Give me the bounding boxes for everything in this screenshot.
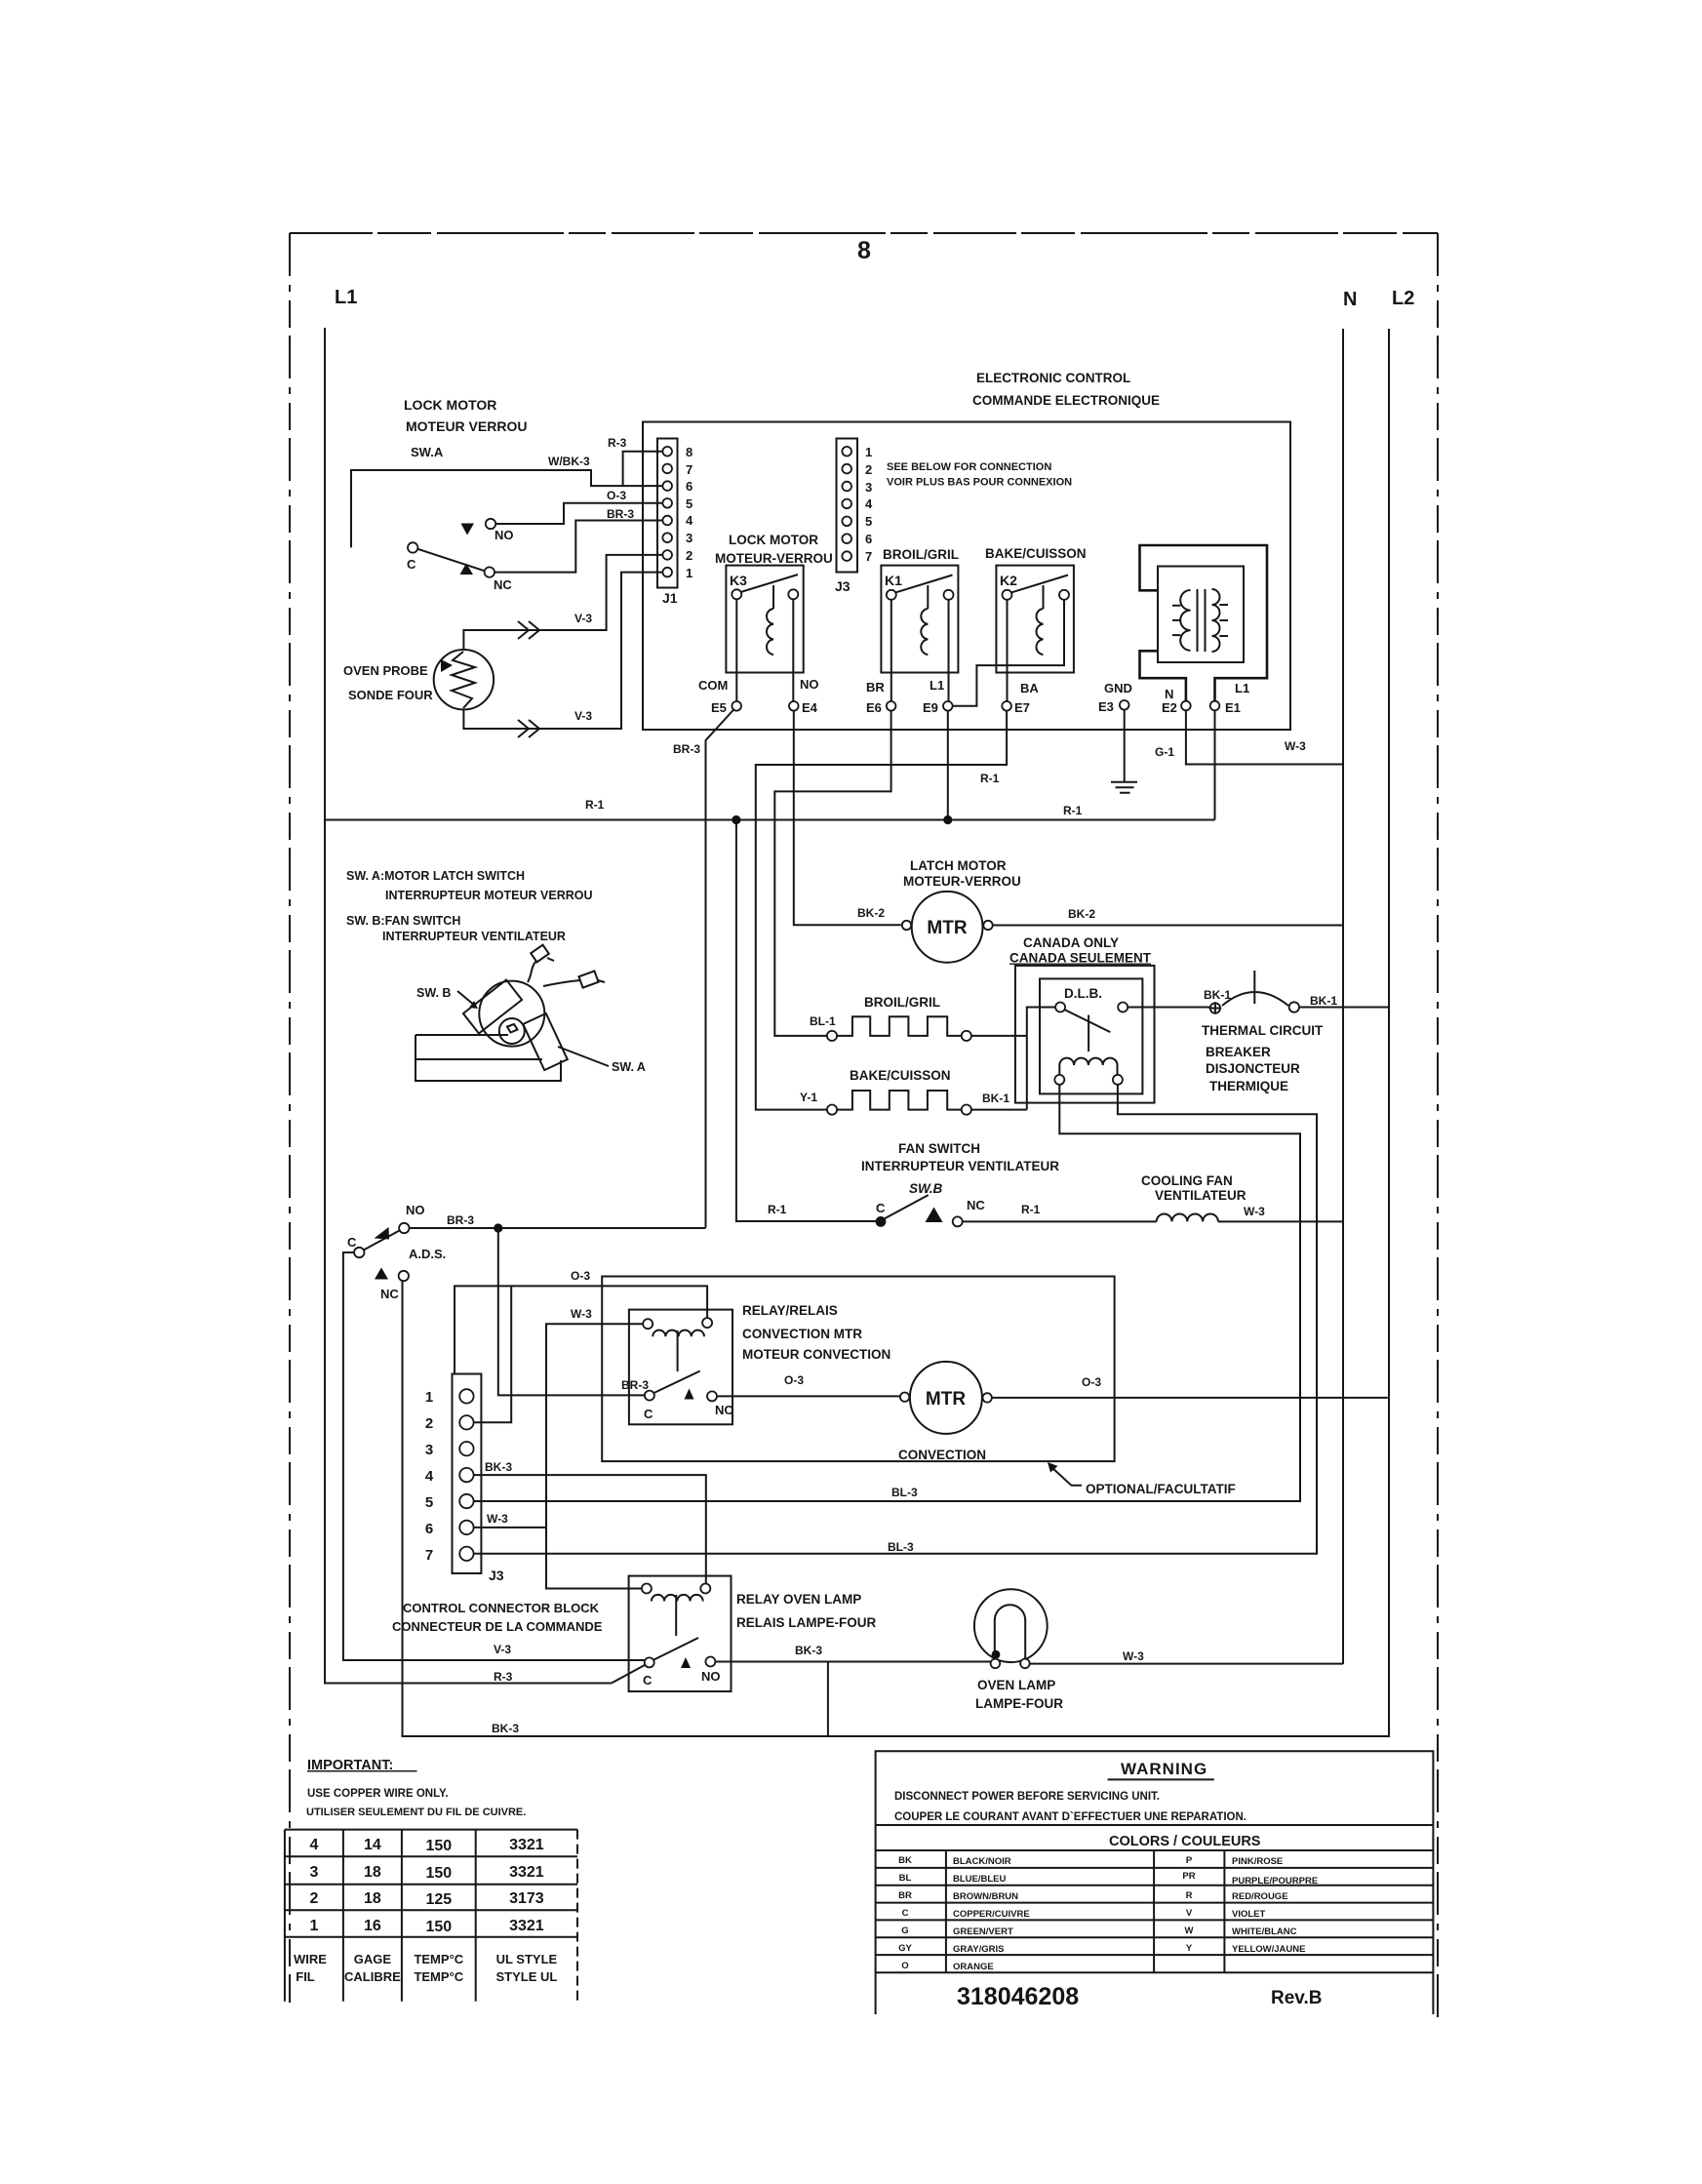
svg-text:318046208: 318046208 xyxy=(957,1983,1079,2010)
junction dot R-1/fan xyxy=(732,815,740,824)
wire L1 bus + R-3 run to relay arm xyxy=(325,328,612,1684)
svg-text:W-3: W-3 xyxy=(487,1512,508,1526)
electronic control box xyxy=(643,422,1290,731)
svg-text:BK-1: BK-1 xyxy=(1204,988,1231,1002)
svg-text:COM: COM xyxy=(698,678,728,693)
svg-text:D.L.B.: D.L.B. xyxy=(1064,986,1102,1001)
terminal E4 xyxy=(789,701,799,711)
svg-text:GND: GND xyxy=(1104,681,1132,695)
wire BK-3 J3 pin4 to lamp relay coil xyxy=(474,1475,706,1583)
svg-text:VOIR PLUS BAS POUR CONNEXION: VOIR PLUS BAS POUR CONNEXION xyxy=(887,477,1072,489)
svg-text:6: 6 xyxy=(686,479,693,494)
svg-text:LATCH MOTOR: LATCH MOTOR xyxy=(910,858,1007,873)
svg-text:W: W xyxy=(1185,1926,1194,1936)
svg-text:INTERRUPTEUR VENTILATEUR: INTERRUPTEUR VENTILATEUR xyxy=(382,930,566,943)
svg-text:BK-1: BK-1 xyxy=(1310,994,1337,1008)
switch SW.A NO arrow xyxy=(461,524,475,536)
svg-text:GAGE: GAGE xyxy=(354,1952,392,1966)
wire NC to cooling fan xyxy=(963,1220,1157,1222)
thermal circuit breaker xyxy=(1209,971,1299,1014)
svg-text:SEE BELOW FOR CONNECTION: SEE BELOW FOR CONNECTION xyxy=(887,461,1051,473)
svg-text:YELLOW/JAUNE: YELLOW/JAUNE xyxy=(1232,1944,1305,1955)
svg-text:BLACK/NOIR: BLACK/NOIR xyxy=(953,1856,1011,1867)
svg-text:W-3: W-3 xyxy=(1244,1205,1265,1218)
svg-text:UL STYLE: UL STYLE xyxy=(496,1952,558,1966)
svg-text:E3: E3 xyxy=(1098,699,1114,714)
latch assembly pictorial xyxy=(416,945,605,1081)
warning divider xyxy=(876,1824,1434,1826)
svg-text:E1: E1 xyxy=(1225,700,1241,715)
svg-text:K2: K2 xyxy=(1000,573,1017,588)
svg-text:G-1: G-1 xyxy=(1155,745,1174,759)
convection motor MTR xyxy=(910,1362,982,1434)
switch SW.B terminal NC xyxy=(953,1216,963,1226)
svg-text:E6: E6 xyxy=(866,700,882,715)
svg-text:7: 7 xyxy=(425,1547,433,1564)
svg-text:R-3: R-3 xyxy=(494,1670,513,1684)
A.D.S. terminal NO xyxy=(399,1223,409,1233)
svg-text:BA: BA xyxy=(1020,681,1039,695)
wire BL-3 DLB right to J3 pin 7 xyxy=(474,1085,1317,1554)
svg-text:SW. A:MOTOR LATCH SWITCH: SW. A:MOTOR LATCH SWITCH xyxy=(346,869,525,883)
J1 pin numbers xyxy=(686,445,693,580)
svg-text:UTILISER SEULEMENT DU FIL DE C: UTILISER SEULEMENT DU FIL DE CUIVRE. xyxy=(306,1807,526,1818)
switch SW.A NC arrow xyxy=(460,564,474,576)
svg-text:6: 6 xyxy=(865,532,872,546)
svg-text:Y-1: Y-1 xyxy=(800,1091,817,1104)
svg-text:INTERRUPTEUR VENTILATEUR: INTERRUPTEUR VENTILATEUR xyxy=(861,1159,1059,1173)
svg-text:3321: 3321 xyxy=(509,1837,544,1853)
relay K2 xyxy=(996,566,1074,673)
svg-text:6: 6 xyxy=(425,1521,433,1537)
svg-text:BK: BK xyxy=(898,1855,912,1866)
svg-text:RELAY/RELAIS: RELAY/RELAIS xyxy=(742,1303,838,1318)
svg-text:V-3: V-3 xyxy=(494,1643,511,1656)
wire W-3 fan to N xyxy=(1218,1220,1343,1222)
svg-text:WIRE: WIRE xyxy=(294,1952,327,1966)
wire E6 down to broil element xyxy=(774,711,891,1036)
svg-text:NC: NC xyxy=(380,1287,399,1301)
svg-text:N: N xyxy=(1165,687,1173,701)
svg-text:FIL: FIL xyxy=(296,1969,315,1984)
svg-text:R-1: R-1 xyxy=(768,1203,787,1216)
J3 upper pin numbers xyxy=(865,445,873,564)
svg-text:O-3: O-3 xyxy=(784,1373,804,1387)
wire R-3 J1 pin 8 xyxy=(623,452,663,486)
svg-text:8: 8 xyxy=(686,445,693,459)
svg-text:BREAKER: BREAKER xyxy=(1206,1045,1271,1059)
svg-text:NO: NO xyxy=(715,1403,734,1417)
svg-text:FAN SWITCH: FAN SWITCH xyxy=(898,1141,980,1156)
svg-text:CONVECTION MTR: CONVECTION MTR xyxy=(742,1327,862,1341)
chevrons V-3 bottom xyxy=(518,720,539,737)
svg-text:BLUE/BLEU: BLUE/BLEU xyxy=(953,1874,1007,1885)
svg-text:MTR: MTR xyxy=(926,1389,966,1410)
svg-text:THERMAL CIRCUIT: THERMAL CIRCUIT xyxy=(1202,1023,1324,1038)
svg-text:J3: J3 xyxy=(835,578,851,594)
svg-text:WARNING: WARNING xyxy=(1121,1760,1207,1778)
svg-text:E7: E7 xyxy=(1014,700,1030,715)
svg-text:R-1: R-1 xyxy=(1063,804,1083,817)
optional box xyxy=(602,1277,1114,1462)
wire DLB right to thermal breaker xyxy=(1128,1007,1210,1009)
wire O-3 J3 top to convection coil xyxy=(455,1286,707,1373)
svg-text:IMPORTANT:: IMPORTANT: xyxy=(307,1758,417,1773)
wire E2 to N (W-3) xyxy=(1186,710,1343,764)
svg-text:7: 7 xyxy=(686,462,693,477)
svg-text:N: N xyxy=(1343,289,1357,310)
svg-text:R-3: R-3 xyxy=(608,436,627,450)
svg-text:CANADA SEULEMENT: CANADA SEULEMENT xyxy=(1009,951,1152,966)
svg-text:VIOLET: VIOLET xyxy=(1232,1909,1266,1920)
relay K1 xyxy=(881,566,958,673)
svg-text:Rev.B: Rev.B xyxy=(1271,1988,1322,2008)
svg-text:MTR: MTR xyxy=(927,918,967,938)
svg-text:R-1: R-1 xyxy=(980,772,1000,785)
svg-text:5: 5 xyxy=(865,514,872,529)
svg-text:BR-3: BR-3 xyxy=(673,742,700,756)
wire K1 NO to E9 xyxy=(948,600,950,701)
transformer xyxy=(1140,545,1268,700)
wire E7 down to bake element xyxy=(756,711,1007,1110)
junction dot R-1/E9 xyxy=(943,815,952,824)
svg-text:5: 5 xyxy=(425,1494,433,1511)
svg-text:BK-3: BK-3 xyxy=(795,1644,822,1657)
svg-text:COOLING FAN: COOLING FAN xyxy=(1141,1173,1233,1188)
svg-text:O-3: O-3 xyxy=(1082,1375,1101,1389)
J3 lower pin numbers xyxy=(425,1389,434,1564)
svg-text:A.D.S.: A.D.S. xyxy=(409,1247,446,1261)
svg-text:SONDE FOUR: SONDE FOUR xyxy=(348,688,433,702)
svg-text:O-3: O-3 xyxy=(607,489,626,502)
svg-text:ELECTRONIC CONTROL: ELECTRONIC CONTROL xyxy=(976,371,1130,385)
svg-text:PURPLE/POURPRE: PURPLE/POURPRE xyxy=(1232,1876,1318,1886)
svg-text:CONTROL CONNECTOR BLOCK: CONTROL CONNECTOR BLOCK xyxy=(403,1601,600,1615)
svg-text:O: O xyxy=(901,1961,908,1971)
wire BK-1 breaker to L2 xyxy=(1299,1007,1389,1009)
switch SW.B arrow xyxy=(926,1208,943,1223)
wire DLB left feed xyxy=(1027,1008,1055,1110)
svg-text:COMMANDE ELECTRONIQUE: COMMANDE ELECTRONIQUE xyxy=(972,393,1160,408)
svg-text:W-3: W-3 xyxy=(1285,739,1306,753)
svg-text:CONVECTION: CONVECTION xyxy=(898,1448,986,1462)
wire J3 pin2 to O-3 run xyxy=(474,1286,512,1422)
wire K2 COM to E7 xyxy=(1007,600,1009,701)
svg-text:LAMPE-FOUR: LAMPE-FOUR xyxy=(975,1696,1063,1711)
svg-text:J1: J1 xyxy=(662,590,678,606)
terminal E6 xyxy=(887,701,896,711)
svg-text:K1: K1 xyxy=(885,573,902,588)
terminal E3 xyxy=(1120,700,1129,710)
A.D.S. arm xyxy=(364,1231,400,1251)
svg-text:NC: NC xyxy=(494,577,512,592)
svg-text:E9: E9 xyxy=(923,700,938,715)
wire BR-3 from E5 down xyxy=(706,710,734,1228)
svg-text:C: C xyxy=(347,1235,357,1250)
svg-text:W/BK-3: W/BK-3 xyxy=(548,455,590,468)
svg-text:BROIL/GRIL: BROIL/GRIL xyxy=(864,995,940,1010)
warning box xyxy=(876,1751,1434,2014)
svg-text:1: 1 xyxy=(309,1918,318,1934)
svg-text:3: 3 xyxy=(425,1442,433,1458)
svg-text:SW. A: SW. A xyxy=(612,1060,646,1074)
wire O-3 NO to J1 pin 5 xyxy=(495,503,662,524)
svg-text:8: 8 xyxy=(857,237,871,264)
page border dashed top xyxy=(290,232,1438,234)
terminal E1 xyxy=(1210,701,1220,711)
svg-text:VENTILATEUR: VENTILATEUR xyxy=(1155,1188,1247,1203)
wire E1 down to R-1 bus xyxy=(1214,710,1216,819)
terminal E2 xyxy=(1181,701,1191,711)
svg-text:P: P xyxy=(1186,1855,1193,1866)
svg-text:K3: K3 xyxy=(730,573,747,588)
page border dashed right xyxy=(1437,233,1439,2017)
svg-text:STYLE UL: STYLE UL xyxy=(495,1969,557,1984)
svg-text:RELAY OVEN LAMP: RELAY OVEN LAMP xyxy=(736,1592,861,1607)
terminal E5 xyxy=(732,701,741,711)
svg-text:C: C xyxy=(643,1673,653,1688)
svg-text:L1: L1 xyxy=(930,678,944,693)
svg-text:BR: BR xyxy=(866,680,885,695)
svg-text:C: C xyxy=(902,1908,909,1919)
svg-text:R-1: R-1 xyxy=(585,798,605,812)
svg-text:1: 1 xyxy=(865,445,872,459)
wire BR-3 dot to convection relay C xyxy=(498,1228,645,1395)
svg-text:SW. B: SW. B xyxy=(416,986,451,1000)
page border dashed left xyxy=(289,233,291,2003)
svg-text:TEMP°C: TEMP°C xyxy=(414,1952,463,1966)
svg-text:OVEN PROBE: OVEN PROBE xyxy=(343,663,428,678)
svg-text:COPPER/CUIVRE: COPPER/CUIVRE xyxy=(953,1909,1030,1920)
svg-text:SW.B: SW.B xyxy=(909,1181,942,1196)
wire N bus xyxy=(1342,329,1344,1664)
svg-text:PR: PR xyxy=(1182,1871,1195,1882)
svg-text:BROIL/GRIL: BROIL/GRIL xyxy=(883,547,959,562)
svg-text:18: 18 xyxy=(364,1864,381,1881)
svg-text:CONNECTEUR DE LA COMMANDE: CONNECTEUR DE LA COMMANDE xyxy=(392,1619,603,1634)
svg-text:RED/ROUGE: RED/ROUGE xyxy=(1232,1891,1288,1902)
optional leader arrow xyxy=(1051,1467,1082,1486)
svg-text:V-3: V-3 xyxy=(574,612,592,625)
svg-text:MOTEUR CONVECTION: MOTEUR CONVECTION xyxy=(742,1347,891,1362)
svg-text:OVEN LAMP: OVEN LAMP xyxy=(977,1678,1055,1692)
svg-text:INTERRUPTEUR MOTEUR VERROU: INTERRUPTEUR MOTEUR VERROU xyxy=(385,889,593,902)
svg-text:V-3: V-3 xyxy=(574,709,592,723)
wire L2 bus + BK-3 bottom run xyxy=(403,329,1390,1736)
svg-text:BAKE/CUISSON: BAKE/CUISSON xyxy=(850,1068,951,1083)
svg-text:NC: NC xyxy=(967,1198,985,1212)
junction dot BR-3 xyxy=(494,1223,502,1232)
wire BL-3 DLB left to J3 pin 5 xyxy=(474,1085,1300,1501)
svg-text:O-3: O-3 xyxy=(571,1269,590,1283)
wire R-1 bus to fan switch C xyxy=(736,824,876,1221)
chevrons V-3 top xyxy=(518,621,539,639)
svg-text:3173: 3173 xyxy=(509,1890,544,1907)
svg-text:BL-1: BL-1 xyxy=(810,1014,836,1028)
svg-text:NO: NO xyxy=(406,1203,425,1217)
svg-text:ORANGE: ORANGE xyxy=(953,1962,994,1972)
svg-text:COLORS / COULEURS: COLORS / COULEURS xyxy=(1109,1834,1261,1849)
switch SW.A arm xyxy=(417,549,484,571)
connector J1 xyxy=(657,439,678,588)
svg-text:CALIBRE: CALIBRE xyxy=(344,1969,401,1984)
switch SW.A terminal C xyxy=(408,542,417,552)
svg-text:LOCK MOTOR: LOCK MOTOR xyxy=(729,533,818,547)
svg-text:2: 2 xyxy=(686,548,693,563)
svg-text:MOTEUR-VERROU: MOTEUR-VERROU xyxy=(715,551,833,566)
svg-text:3: 3 xyxy=(686,531,693,545)
svg-text:150: 150 xyxy=(425,1919,452,1935)
svg-text:BK-2: BK-2 xyxy=(1068,907,1095,921)
svg-text:Y: Y xyxy=(1186,1943,1193,1954)
A.D.S. terminal C xyxy=(354,1248,364,1257)
svg-text:J3: J3 xyxy=(489,1568,504,1583)
svg-text:3: 3 xyxy=(309,1864,318,1881)
svg-text:150: 150 xyxy=(425,1838,452,1854)
svg-text:4: 4 xyxy=(309,1837,318,1853)
svg-text:C: C xyxy=(644,1407,653,1421)
wire K3 COM to E5 xyxy=(735,599,737,701)
svg-text:BK-3: BK-3 xyxy=(492,1722,519,1735)
svg-text:18: 18 xyxy=(364,1890,381,1907)
wire W/BK-3 from SW.A to J1 pin 6 xyxy=(351,470,662,547)
svg-text:2: 2 xyxy=(309,1890,318,1907)
svg-text:TEMP°C: TEMP°C xyxy=(414,1969,463,1984)
svg-text:RELAIS LAMPE-FOUR: RELAIS LAMPE-FOUR xyxy=(736,1615,876,1630)
svg-text:COUPER LE COURANT AVANT D`EFFE: COUPER LE COURANT AVANT D`EFFECTUER UNE … xyxy=(894,1811,1247,1823)
svg-text:OPTIONAL/FACULTATIF: OPTIONAL/FACULTATIF xyxy=(1086,1482,1236,1496)
svg-text:PINK/ROSE: PINK/ROSE xyxy=(1232,1856,1283,1867)
svg-text:MOTEUR VERROU: MOTEUR VERROU xyxy=(406,418,527,434)
wire BK-3 NO to oven lamp xyxy=(715,1661,990,1663)
terminal E7 xyxy=(1002,701,1011,711)
svg-text:V: V xyxy=(1186,1908,1193,1919)
switch SW.A terminal NC xyxy=(485,567,495,576)
wire V-3 probe bottom to J1 pin 1 xyxy=(463,573,662,729)
latch motor MTR xyxy=(912,892,983,963)
svg-text:3321: 3321 xyxy=(509,1864,544,1881)
wire BK-3 drop to bottom run xyxy=(827,1662,829,1737)
svg-text:E5: E5 xyxy=(711,700,727,715)
svg-text:3: 3 xyxy=(865,480,872,495)
svg-text:C: C xyxy=(407,557,416,572)
ground symbol xyxy=(1111,782,1137,793)
svg-text:BR-3: BR-3 xyxy=(621,1378,649,1392)
A.D.S. NC arrow xyxy=(375,1268,388,1280)
wire W-3 lamp to N xyxy=(1030,1663,1343,1665)
wire O-3 MTR to L2 xyxy=(992,1397,1388,1399)
svg-text:DISJONCTEUR: DISJONCTEUR xyxy=(1206,1061,1300,1076)
wire BR-3 NC to J1 pin 4 xyxy=(495,521,662,573)
svg-text:THERMIQUE: THERMIQUE xyxy=(1209,1079,1288,1093)
wire E3 to ground xyxy=(1124,710,1126,782)
wire W-3 riser conv coil to lamp relay coil xyxy=(546,1324,643,1588)
svg-text:WHITE/BLANC: WHITE/BLANC xyxy=(1232,1926,1297,1937)
svg-text:4: 4 xyxy=(425,1468,434,1485)
svg-text:2: 2 xyxy=(425,1415,433,1432)
svg-text:L2: L2 xyxy=(1392,288,1414,309)
wire BK-2 right to N xyxy=(993,925,1343,927)
svg-text:LOCK MOTOR: LOCK MOTOR xyxy=(404,397,496,413)
svg-text:BL: BL xyxy=(899,1873,912,1884)
svg-text:4: 4 xyxy=(865,496,873,511)
A.D.S. NO arrow xyxy=(375,1227,390,1240)
A.D.S. terminal NC xyxy=(399,1271,409,1281)
svg-text:NO: NO xyxy=(701,1669,721,1684)
svg-text:BL-3: BL-3 xyxy=(888,1540,914,1554)
wire K3 NO to E4 xyxy=(792,599,794,701)
svg-text:BR-3: BR-3 xyxy=(447,1213,474,1227)
svg-text:CANADA ONLY: CANADA ONLY xyxy=(1023,935,1119,950)
wire BR-3 NO to E5 drop xyxy=(410,1227,706,1229)
DLB outer box xyxy=(1015,966,1155,1103)
connector J3 lower xyxy=(453,1374,482,1574)
wire gauge table xyxy=(285,1830,577,2002)
terminal E9 xyxy=(943,701,953,711)
svg-text:NO: NO xyxy=(800,677,819,692)
color table xyxy=(876,1850,1434,1972)
svg-text:14: 14 xyxy=(364,1837,381,1853)
relay K3 xyxy=(726,566,803,673)
svg-text:5: 5 xyxy=(686,496,693,511)
svg-text:GRAY/GRIS: GRAY/GRIS xyxy=(953,1944,1004,1955)
svg-text:16: 16 xyxy=(364,1918,381,1934)
svg-text:W-3: W-3 xyxy=(571,1307,592,1321)
oven lamp xyxy=(974,1589,1048,1668)
svg-text:4: 4 xyxy=(686,513,693,528)
wire E9 down to R-1 bus xyxy=(947,711,949,820)
svg-text:BK-2: BK-2 xyxy=(857,906,885,920)
svg-text:R: R xyxy=(1186,1890,1193,1901)
relay convection xyxy=(629,1310,734,1425)
svg-text:MOTEUR-VERROU: MOTEUR-VERROU xyxy=(903,874,1021,889)
svg-text:BR-3: BR-3 xyxy=(607,507,634,521)
wire R-1 bus xyxy=(325,819,1215,821)
svg-text:BK-1: BK-1 xyxy=(982,1092,1009,1105)
svg-text:2: 2 xyxy=(865,462,872,477)
wire W-3 J3 pin6 xyxy=(474,1527,546,1529)
wire K1 COM to E6 xyxy=(891,600,892,701)
svg-text:BAKE/CUISSON: BAKE/CUISSON xyxy=(985,546,1087,561)
svg-text:R-1: R-1 xyxy=(1021,1203,1041,1216)
switch SW.B arm xyxy=(885,1195,929,1218)
wire A.D.S. C down to V-3 run xyxy=(343,1252,645,1660)
switch SW.B terminal C xyxy=(876,1216,887,1227)
svg-text:150: 150 xyxy=(425,1865,452,1882)
connector J3 upper xyxy=(837,439,858,573)
svg-text:E2: E2 xyxy=(1162,700,1177,715)
cooling fan coil xyxy=(1157,1214,1218,1222)
oven probe xyxy=(434,650,494,709)
svg-text:3321: 3321 xyxy=(509,1918,544,1934)
svg-text:NO: NO xyxy=(495,528,514,542)
svg-text:7: 7 xyxy=(865,549,872,564)
svg-text:L1: L1 xyxy=(335,287,357,308)
relay D.L.B. xyxy=(1040,978,1142,1093)
svg-text:BROWN/BRUN: BROWN/BRUN xyxy=(953,1891,1018,1902)
wire broil to DLB xyxy=(971,1035,1027,1037)
svg-text:125: 125 xyxy=(425,1891,452,1908)
svg-text:L1: L1 xyxy=(1235,681,1249,695)
svg-text:DISCONNECT POWER BEFORE SERVIC: DISCONNECT POWER BEFORE SERVICING UNIT. xyxy=(894,1791,1160,1803)
switch SW.A terminal NO xyxy=(486,519,495,529)
svg-text:USE COPPER WIRE ONLY.: USE COPPER WIRE ONLY. xyxy=(307,1788,449,1800)
svg-text:GY: GY xyxy=(898,1943,912,1954)
wire V-3 probe top to J1 pin 2 xyxy=(463,555,662,650)
svg-text:W-3: W-3 xyxy=(1123,1649,1144,1663)
svg-text:C: C xyxy=(876,1201,886,1215)
svg-text:G: G xyxy=(901,1926,908,1936)
